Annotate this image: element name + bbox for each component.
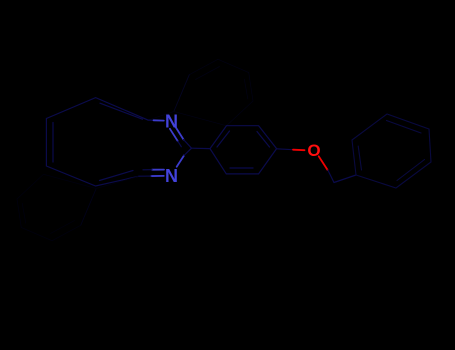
phenylene ring H3 (210, 126, 277, 174)
bond C4 to H2m ipso (96, 176, 139, 188)
CH2 to benzyl ring bond (334, 175, 356, 183)
phenyl ring H2 (top) (174, 59, 253, 125)
steep edge of H2m (81, 189, 97, 226)
O-CH2 bond dark half (328, 170, 334, 183)
bond C2 to phenylene (192, 147, 211, 149)
pyrimidine: C6-N1 bond dark half (148, 119, 154, 121)
svg-text:N: N (165, 166, 178, 186)
N3=C4 double bond blue halves (151, 175, 164, 177)
C2-N3 bond blue half (177, 156, 184, 167)
bond phenylene to O dark half (277, 148, 293, 151)
benzene ring H1 (left) (46, 98, 148, 186)
N1=C2 double bond dark halves (184, 140, 192, 149)
bond C6 to H2 ipso (148, 112, 174, 121)
svg-text:O: O (307, 141, 320, 160)
N3=C4 double bond dark halves (139, 175, 151, 177)
O-CH2 bond red half (319, 156, 328, 170)
N1=C2 double bond blue halves (175, 126, 184, 140)
steep edge A-B of H2 (174, 75, 190, 112)
C2-N3 bond dark half (184, 148, 192, 155)
bond to O red half (293, 149, 305, 152)
C6-N1 bond blue half (154, 119, 164, 121)
benzyl phenyl ring H4 (352, 114, 431, 188)
svg-text:N: N (165, 112, 178, 132)
phenyl ring H2m (bottom-left mirror) (17, 174, 96, 240)
